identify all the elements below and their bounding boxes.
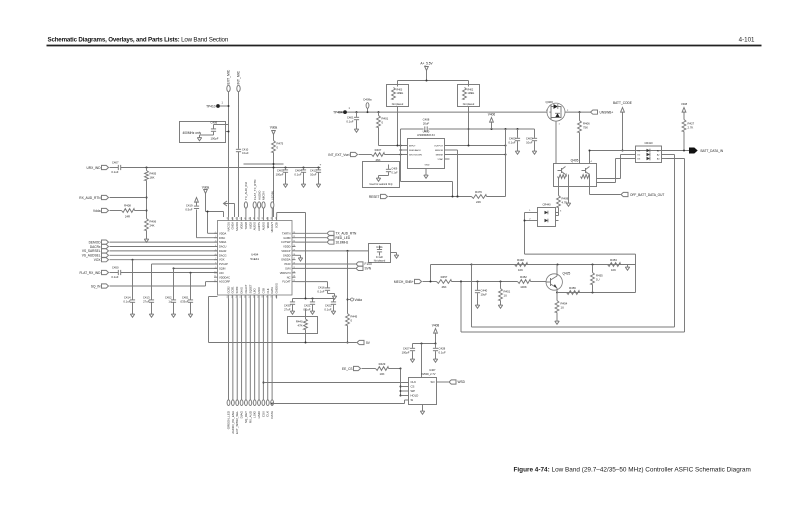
svg-text:Used for Leabord Only: Used for Leabord Only: [369, 183, 393, 186]
svg-text:10: 10: [214, 271, 216, 273]
svg-text:SVN: SVN: [285, 267, 290, 271]
svg-text:FLAT_RX_IND: FLAT_RX_IND: [79, 271, 101, 275]
svg-text:R457: R457: [441, 275, 448, 279]
svg-text:INT_EXT_Vsel: INT_EXT_Vsel: [328, 153, 349, 157]
svg-text:SHUTDOWN: SHUTDOWN: [409, 155, 422, 157]
svg-text:44: 44: [227, 217, 229, 219]
svg-text:CLK: CLK: [266, 288, 270, 293]
svg-text:FLAT_TX_RTN: FLAT_TX_RTN: [253, 180, 257, 200]
svg-text:17: 17: [249, 296, 251, 298]
svg-text:10K: 10K: [611, 268, 616, 272]
svg-text:CHACT: CHACT: [244, 284, 248, 293]
svg-text:46K: 46K: [442, 285, 447, 289]
svg-text:HOLD: HOLD: [411, 394, 419, 398]
svg-text:0.1uF: 0.1uF: [303, 308, 310, 312]
svg-text:AUDIO: AUDIO: [257, 190, 261, 200]
svg-text:1U: 1U: [504, 294, 508, 298]
svg-text:Vdda: Vdda: [270, 126, 278, 130]
svg-text:WP: WP: [411, 389, 416, 393]
svg-text:X2500_2.7V: X2500_2.7V: [421, 372, 436, 376]
svg-text:SI: SI: [411, 398, 414, 402]
svg-text:SNDA: SNDA: [219, 240, 226, 244]
svg-text:10K: 10K: [380, 372, 385, 376]
svg-text:0.1uF: 0.1uF: [317, 290, 324, 294]
svg-text:12: 12: [227, 296, 229, 298]
svg-text:Schematic Diagrams, Overlays,: Schematic Diagrams, Overlays, and Parts …: [48, 37, 229, 44]
svg-text:C411: C411: [376, 245, 383, 249]
svg-text:20: 20: [262, 296, 264, 298]
svg-text:16: 16: [245, 296, 247, 298]
svg-text:VDDA: VDDA: [239, 222, 243, 229]
svg-text:TX_AUD_RTN: TX_AUD_RTN: [336, 232, 358, 236]
svg-text:0.1uF: 0.1uF: [111, 275, 118, 279]
svg-text:CLK: CLK: [411, 380, 417, 384]
svg-text:RESET: RESET: [369, 195, 380, 199]
svg-text:23: 23: [275, 296, 277, 298]
svg-text:U400: U400: [423, 130, 430, 134]
svg-text:NACGU: NACGU: [226, 222, 230, 231]
svg-text:EE_CS: EE_CS: [342, 367, 352, 371]
svg-text:7: 7: [215, 258, 216, 260]
svg-text:DATA: DATA: [270, 411, 274, 419]
svg-text:2.7K: 2.7K: [688, 126, 694, 130]
svg-text:TP410: TP410: [206, 105, 216, 109]
svg-text:VS_SARSEL: VS_SARSEL: [82, 249, 101, 253]
svg-text:32: 32: [293, 236, 295, 238]
svg-text:R408: R408: [124, 204, 131, 208]
svg-text:100pF: 100pF: [211, 137, 219, 141]
svg-text:51E41: 51E41: [250, 257, 259, 261]
svg-text:10uF: 10uF: [526, 141, 533, 145]
svg-text:5: 5: [215, 249, 216, 251]
svg-text:C406: C406: [211, 121, 218, 125]
svg-text:CS: CS: [411, 385, 415, 389]
svg-text:SVN: SVN: [365, 267, 372, 271]
svg-text:22: 22: [293, 280, 295, 282]
svg-text:23: 23: [293, 276, 295, 278]
svg-text:R453: R453: [610, 258, 617, 262]
svg-text:DACRx: DACRx: [90, 245, 101, 249]
svg-text:10uF: 10uF: [481, 293, 488, 297]
svg-text:100pF: 100pF: [402, 351, 410, 355]
svg-text:P100: P100: [284, 262, 291, 266]
svg-text:LBO: LBO: [253, 288, 257, 293]
svg-text:SENSE: SENSE: [436, 155, 444, 157]
svg-text:0.1uF: 0.1uF: [508, 141, 515, 145]
svg-text:AUDIO: AUDIO: [253, 222, 257, 230]
svg-text:DACU: DACU: [219, 245, 226, 249]
svg-text:NACRK: NACRK: [235, 222, 239, 231]
svg-text:27uF: 27uF: [284, 308, 291, 312]
svg-text:VS_AUDSEL: VS_AUDSEL: [82, 254, 101, 258]
svg-text:FLOAT: FLOAT: [282, 280, 291, 284]
svg-text:24K: 24K: [476, 200, 481, 204]
svg-text:V406: V406: [488, 113, 496, 117]
svg-text:11: 11: [214, 276, 216, 278]
svg-text:0.1uF: 0.1uF: [242, 151, 249, 155]
svg-text:U404: U404: [251, 253, 259, 257]
svg-text:GCB1: GCB1: [231, 286, 235, 294]
svg-text:URXAVT: URXAVT: [270, 222, 274, 233]
svg-text:V408: V408: [681, 102, 688, 106]
svg-text:0.1uF: 0.1uF: [294, 173, 301, 177]
svg-text:9: 9: [215, 267, 216, 269]
svg-text:DIAG: DIAG: [239, 287, 243, 293]
svg-text:D409a: D409a: [363, 98, 372, 102]
svg-text:BATT_CODE: BATT_CODE: [613, 101, 632, 105]
svg-text:3: 3: [215, 241, 216, 243]
svg-text:+: +: [320, 163, 322, 167]
svg-text:TP404: TP404: [333, 111, 343, 115]
svg-text:PVCAP: PVCAP: [219, 262, 228, 266]
svg-text:19: 19: [258, 296, 260, 298]
svg-text:33: 33: [275, 217, 277, 219]
svg-text:25: 25: [293, 267, 295, 269]
svg-text:OFF_BATT_DATA_OUT: OFF_BATT_DATA_OUT: [630, 193, 664, 197]
svg-text:4-101: 4-101: [739, 37, 755, 44]
svg-text:VDDDAC: VDDDAC: [219, 275, 230, 279]
svg-text:TXINB: TXINB: [244, 222, 248, 230]
svg-text:8: 8: [215, 263, 216, 265]
svg-text:FEEDBACK: FEEDBACK: [409, 149, 421, 152]
svg-text:27uF: 27uF: [143, 300, 150, 304]
svg-text:VDDCP: VDDCP: [281, 249, 290, 253]
svg-text:39: 39: [249, 217, 251, 219]
svg-text:1MEG: 1MEG: [397, 92, 404, 95]
svg-text:100K: 100K: [520, 285, 527, 289]
svg-text:VDDSYN: VDDSYN: [280, 271, 291, 275]
svg-text:CR410: CR410: [644, 141, 653, 145]
svg-text:Not placed: Not placed: [463, 103, 475, 106]
svg-text:10K: 10K: [518, 268, 523, 272]
svg-text:VOX: VOX: [94, 258, 102, 262]
svg-text:38: 38: [253, 217, 255, 219]
svg-text:F100: F100: [365, 262, 372, 266]
svg-text:34: 34: [271, 217, 273, 219]
svg-text:GCB2: GCB2: [226, 286, 230, 294]
svg-text:ERROR: ERROR: [435, 150, 443, 152]
svg-text:16.8MHz: 16.8MHz: [336, 240, 349, 244]
svg-text:4: 4: [215, 245, 216, 247]
svg-text:GCB0: GCB0: [283, 236, 291, 240]
svg-text:WSD: WSD: [458, 380, 466, 384]
svg-text:WDD: WDD: [266, 222, 270, 228]
svg-text:OUTPUT: OUTPUT: [434, 146, 444, 148]
svg-text:100pF: 100pF: [276, 173, 284, 177]
svg-text:R448: R448: [517, 258, 524, 262]
svg-text:VDDA: VDDA: [219, 231, 226, 235]
svg-text:400MHz only: 400MHz only: [183, 131, 202, 135]
svg-text:1U: 1U: [596, 278, 600, 282]
svg-text:SQDET: SQDET: [248, 284, 252, 293]
svg-text:21: 21: [267, 296, 269, 298]
svg-text:20uF: 20uF: [423, 122, 430, 126]
svg-text:C407: C407: [112, 161, 119, 165]
svg-text:0.1uF: 0.1uF: [123, 300, 130, 304]
svg-text:AURTN: AURTN: [257, 222, 261, 231]
svg-text:VTAP: VTAP: [437, 158, 443, 161]
svg-text:SCBI: SCBI: [275, 222, 279, 228]
svg-text:DATA: DATA: [270, 287, 274, 294]
svg-text:35: 35: [267, 217, 269, 219]
svg-text:41: 41: [240, 217, 242, 219]
svg-text:15: 15: [240, 296, 242, 298]
svg-text:42: 42: [236, 217, 238, 219]
svg-text:MECH_SNB+: MECH_SNB+: [394, 280, 414, 284]
svg-text:16K: 16K: [150, 176, 155, 180]
svg-text:27: 27: [293, 258, 295, 260]
svg-text:0.1uF: 0.1uF: [439, 351, 446, 355]
svg-text:0.1uF: 0.1uF: [111, 170, 118, 174]
svg-text:1U: 1U: [561, 306, 565, 310]
svg-text:RED_LED: RED_LED: [336, 236, 351, 240]
svg-text:1MEG: 1MEG: [468, 92, 475, 95]
svg-text:Q400: Q400: [546, 100, 554, 104]
svg-text:UIO: UIO: [219, 271, 224, 275]
svg-text:GND: GND: [425, 165, 430, 167]
svg-text:30: 30: [293, 245, 295, 247]
svg-text:R452: R452: [520, 275, 527, 279]
svg-text:LEDBL: LEDBL: [271, 190, 275, 200]
svg-text:Vdda: Vdda: [355, 298, 363, 302]
svg-text:AUDIO: AUDIO: [261, 222, 265, 230]
svg-text:LP2986IMMX-5.0: LP2986IMMX-5.0: [417, 135, 436, 137]
svg-text:47K: 47K: [298, 324, 303, 328]
svg-text:40: 40: [245, 217, 247, 219]
svg-text:GNDD: GNDD: [283, 253, 291, 257]
svg-text:SQ_IN: SQ_IN: [91, 285, 101, 289]
svg-text:DACG: DACG: [219, 253, 227, 257]
svg-text:33: 33: [293, 232, 295, 234]
svg-text:43: 43: [231, 217, 233, 219]
svg-text:MICIN: MICIN: [262, 192, 266, 201]
svg-text:VOX: VOX: [219, 258, 225, 262]
svg-text:EXT_MIC: EXT_MIC: [227, 69, 231, 84]
svg-text:C409: C409: [392, 168, 398, 171]
svg-text:GNDDIG: GNDDIG: [275, 283, 279, 293]
svg-text:1u: 1u: [168, 300, 172, 304]
svg-text:CSB: CSB: [261, 288, 265, 294]
svg-text:RX_AUD_RTN: RX_AUD_RTN: [79, 196, 101, 200]
svg-text:29: 29: [293, 249, 295, 251]
svg-text:.033uF: .033uF: [180, 300, 189, 304]
svg-text:26: 26: [293, 263, 295, 265]
svg-text:AUD2: AUD2: [248, 221, 252, 228]
svg-text:18: 18: [253, 296, 255, 298]
svg-text:TX_AUD_INJ: TX_AUD_INJ: [244, 181, 248, 200]
svg-text:Vdda: Vdda: [93, 209, 101, 213]
svg-text:GNDDA: GNDDA: [281, 258, 291, 262]
svg-text:SQIN: SQIN: [219, 267, 225, 271]
svg-text:NC: NC: [287, 275, 291, 279]
svg-text:0.1uF: 0.1uF: [392, 172, 399, 175]
svg-text:Vdda: Vdda: [202, 186, 210, 190]
svg-text:0.1uF: 0.1uF: [346, 120, 353, 124]
svg-text:Not placed: Not placed: [392, 103, 404, 106]
svg-text:DISC: DISC: [219, 236, 225, 240]
svg-text:GNDA: GNDA: [231, 222, 235, 230]
svg-text:CUTSW: CUTSW: [281, 240, 291, 244]
svg-text:6: 6: [215, 254, 216, 256]
svg-text:75K: 75K: [583, 126, 588, 130]
svg-text:C410: C410: [242, 148, 249, 152]
svg-text:DACR: DACR: [219, 249, 226, 253]
svg-text:AGCORF: AGCORF: [219, 280, 231, 284]
svg-text:DEMOD: DEMOD: [89, 240, 102, 244]
svg-text:R476: R476: [475, 190, 482, 194]
svg-text:INPUT: INPUT: [409, 146, 416, 148]
svg-text:Q405: Q405: [571, 159, 579, 163]
svg-text:0.1uF: 0.1uF: [324, 308, 331, 312]
svg-text:R456: R456: [569, 286, 576, 290]
svg-text:R429: R429: [379, 362, 386, 366]
svg-text:36: 36: [262, 217, 264, 219]
svg-text:13: 13: [231, 296, 233, 298]
svg-text:INT_MIC: INT_MIC: [237, 70, 241, 84]
svg-text:22: 22: [271, 296, 273, 298]
svg-text:24K: 24K: [150, 224, 155, 228]
svg-text:A+_5.5V: A+_5.5V: [420, 62, 433, 66]
svg-text:C450: C450: [112, 266, 119, 270]
svg-text:37: 37: [258, 217, 260, 219]
svg-text:10uF: 10uF: [310, 173, 317, 177]
svg-text:CR440: CR440: [542, 203, 551, 207]
svg-text:UNSWB+: UNSWB+: [600, 110, 614, 114]
svg-text:V408: V408: [432, 324, 440, 328]
svg-text:Figure 4-74: Low Band (29.7–42: Figure 4-74: Low Band (29.7–42/35–50 MHz…: [514, 467, 751, 474]
svg-text:14: 14: [236, 296, 238, 298]
svg-text:24: 24: [293, 271, 295, 273]
svg-text:URX_IND: URX_IND: [87, 166, 102, 170]
svg-text:BATT_DATA_IN: BATT_DATA_IN: [701, 149, 724, 153]
svg-text:24R: 24R: [125, 215, 130, 219]
svg-text:12: 12: [214, 280, 216, 282]
svg-text:31: 31: [293, 241, 295, 243]
svg-text:0.5uF: 0.5uF: [185, 208, 192, 212]
svg-text:Not placed: Not placed: [374, 259, 386, 262]
svg-text:Q425: Q425: [563, 272, 571, 276]
svg-text:28: 28: [293, 254, 295, 256]
svg-text:SCB0: SCB0: [235, 286, 239, 293]
svg-text:TXRTN: TXRTN: [282, 231, 291, 235]
svg-text:U407: U407: [429, 368, 436, 372]
svg-text:R407: R407: [375, 148, 382, 152]
svg-text:HSIO: HSIO: [257, 287, 261, 293]
svg-text:VDDD: VDDD: [283, 245, 290, 249]
